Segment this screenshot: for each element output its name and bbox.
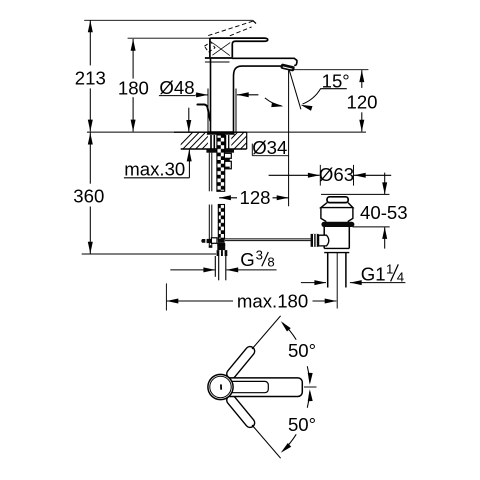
lever raised position (dashed)	[208, 21, 253, 35]
deck right end cap	[246, 132, 248, 149]
label Ø34 and box	[251, 144, 253, 156]
pull rod below deck	[208, 153, 210, 192]
svg-text:128: 128	[239, 187, 270, 208]
top view: centerline right	[304, 386, 317, 388]
drain seal flange	[321, 222, 354, 227]
hose nut	[217, 250, 228, 256]
dimension 213	[89, 20, 91, 65]
svg-text:120: 120	[346, 91, 377, 112]
water stream vertical reference line	[288, 70, 290, 206]
reference plane line (mounting surface)	[87, 131, 366, 133]
dashed lever tip tick	[253, 21, 256, 24]
svg-text:3: 3	[256, 248, 263, 263]
dimension 360	[89, 133, 91, 184]
pop-up actuating rod	[225, 238, 311, 240]
faucet head top	[205, 57, 233, 59]
svg-text:180: 180	[118, 77, 149, 98]
in-hole left guide bars	[210, 135, 212, 149]
svg-text:4: 4	[397, 270, 404, 285]
top view: rotated handle down 50 deg	[225, 394, 257, 430]
deck top edge	[174, 131, 247, 133]
svg-text:Ø34: Ø34	[252, 137, 287, 158]
threaded shank lower	[218, 205, 224, 240]
svg-text:Ø63: Ø63	[319, 164, 354, 185]
svg-text:8: 8	[267, 255, 274, 270]
top view: center mark	[220, 384, 222, 389]
reference line bottom (hose end)	[82, 253, 217, 255]
pop-up rod coupler	[201, 239, 205, 243]
body outer contour lines (Ø48 cylinder)	[207, 89, 209, 132]
top view: diagonal leader up	[252, 316, 281, 349]
drain centerline	[336, 253, 338, 309]
dimension Ø63	[319, 165, 321, 186]
hose fitting	[218, 239, 225, 243]
dimension 128	[219, 195, 231, 200]
svg-text:G: G	[240, 249, 254, 270]
svg-text:max.180: max.180	[237, 290, 308, 311]
drain side port	[319, 235, 329, 246]
dimension G 3/8	[170, 269, 215, 271]
base gasket on deck	[207, 131, 235, 134]
dimension 180	[132, 39, 134, 79]
reference line 180 (lever top)	[128, 37, 210, 39]
dimension 40-53 with reference lines	[321, 193, 389, 195]
drain plug cap	[327, 197, 348, 203]
reference line top (raised lever height)	[84, 19, 253, 21]
50 deg arc upper	[307, 366, 309, 382]
svg-text:50°: 50°	[288, 414, 316, 435]
drain body	[323, 227, 325, 248]
top view: diagonal leader down	[252, 425, 281, 458]
dimension 120 with reference lines	[289, 69, 368, 71]
supply hose	[214, 256, 216, 277]
50 deg arc lower	[307, 392, 309, 408]
in-hole right column	[225, 135, 227, 149]
faucet lever (solid, horizontal) and cartridge block	[210, 38, 268, 57]
top view: faucet body circle	[208, 374, 233, 399]
svg-text:1: 1	[386, 261, 393, 276]
svg-text:360: 360	[73, 185, 104, 206]
faucet body left edge	[210, 58, 212, 132]
deck bottom edge	[181, 148, 247, 150]
water stream 15 deg line	[289, 70, 301, 109]
svg-text:40-53: 40-53	[360, 202, 408, 223]
svg-text:213: 213	[75, 67, 106, 88]
pop-up pull rod handle	[197, 105, 210, 121]
top view: handle inner outline	[226, 381, 268, 392]
svg-text:G1: G1	[361, 263, 386, 284]
hose connection stub	[224, 153, 231, 158]
cartridge block internal diagonals	[212, 43, 230, 56]
drain tailpipe	[327, 253, 329, 288]
top view: rotated handle up 50 deg	[225, 345, 257, 381]
svg-text:max.30: max.30	[124, 158, 185, 179]
svg-text:50°: 50°	[288, 340, 316, 361]
svg-text:Ø48: Ø48	[159, 77, 194, 98]
drain plug sides	[321, 208, 353, 222]
lock nut under deck	[206, 149, 234, 153]
knurled knob	[311, 234, 319, 247]
top view: handle (straight)	[224, 378, 302, 397]
spout (top edge, tip, underside)	[232, 58, 297, 65]
faucet shoulder line	[205, 61, 230, 63]
aerator (angled mousseur)	[280, 63, 295, 71]
threaded shank upper (through deck hole)	[217, 135, 225, 191]
dimension max.180	[165, 283, 167, 310]
drain plug flare	[321, 203, 353, 208]
dimension G1 1/4	[301, 282, 326, 284]
